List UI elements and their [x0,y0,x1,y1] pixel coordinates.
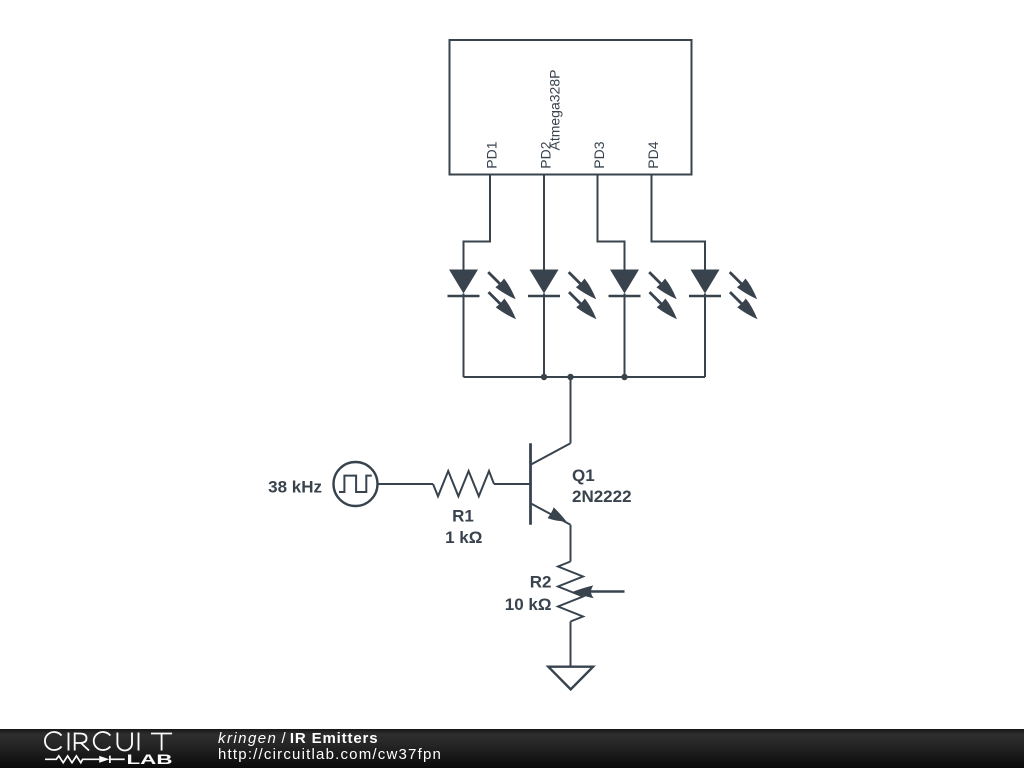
svg-text:38 kHz: 38 kHz [268,477,322,496]
svg-text:Q1: Q1 [572,466,595,485]
svg-text:PD4: PD4 [645,141,661,168]
svg-text:LAB: LAB [127,752,173,767]
svg-text:PD3: PD3 [591,141,607,168]
svg-text:10 kΩ: 10 kΩ [505,595,552,614]
svg-text:R2: R2 [530,573,552,592]
svg-text:R1: R1 [452,507,474,526]
svg-text:2N2222: 2N2222 [572,487,632,506]
svg-text:PD1: PD1 [484,141,500,168]
svg-text:Atmega328P: Atmega328P [547,70,563,151]
svg-text:1 kΩ: 1 kΩ [445,528,482,547]
